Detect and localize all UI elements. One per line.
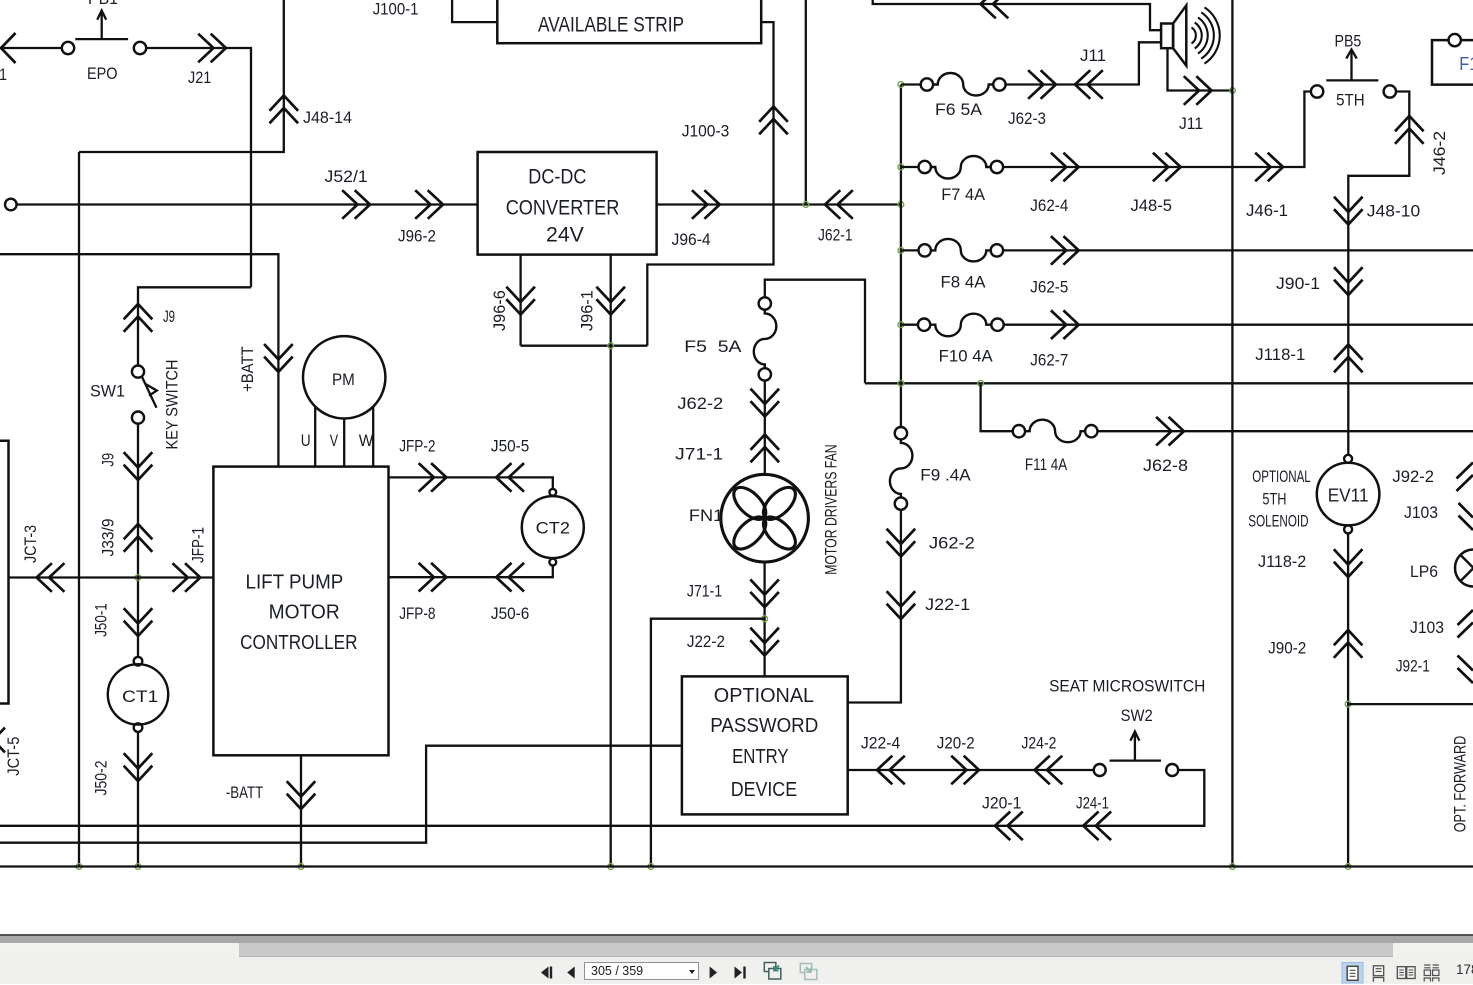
horn speaker bbox=[1161, 5, 1220, 65]
wire: left feed into EPO bbox=[0, 33, 62, 63]
svg-text:J103: J103 bbox=[1404, 504, 1438, 522]
svg-text:-BATT: -BATT bbox=[226, 784, 263, 802]
svg-text:J118-2: J118-2 bbox=[1258, 553, 1306, 571]
connector J50-6 bbox=[491, 563, 529, 623]
junction -BATT/bus bbox=[298, 864, 304, 870]
fuse F9 .4A bbox=[890, 427, 971, 510]
wire bus2 to password device bbox=[0, 746, 682, 843]
junction x1232/bus bbox=[1230, 864, 1236, 870]
svg-text:ENTRY: ENTRY bbox=[732, 746, 789, 768]
connector -BATT bbox=[226, 781, 315, 809]
junction bus-end/y383 bbox=[898, 380, 904, 386]
svg-text:JCT-3: JCT-3 bbox=[22, 525, 40, 563]
connector J52/1 bbox=[325, 168, 371, 219]
svg-text:J71-1: J71-1 bbox=[687, 583, 722, 601]
svg-text:J33/9: J33/9 bbox=[100, 519, 118, 557]
pushbutton PB1 (EPO) bbox=[62, 0, 146, 83]
connector J90-1 bbox=[1276, 267, 1363, 295]
connector J96-1 bbox=[579, 287, 625, 331]
junction F10 bbox=[898, 322, 904, 328]
svg-text:MOTOR DRIVERS FAN: MOTOR DRIVERS FAN bbox=[822, 444, 840, 574]
svg-text:F10 4A: F10 4A bbox=[939, 348, 993, 366]
svg-text:J9: J9 bbox=[100, 453, 118, 467]
svg-text:JFP-1: JFP-1 bbox=[190, 527, 208, 563]
wire +BATT branch bbox=[0, 254, 278, 466]
connector J62-2 seat bbox=[887, 529, 975, 557]
svg-text:JFP-2: JFP-2 bbox=[399, 438, 435, 456]
svg-text:EPO: EPO bbox=[87, 65, 118, 83]
wire 5TH to J48-10 drop bbox=[1348, 92, 1409, 455]
connector J11 horn bbox=[1075, 47, 1106, 99]
svg-text:J96-2: J96-2 bbox=[398, 228, 436, 246]
junction F6 bbox=[898, 82, 904, 88]
connector J9 lower bbox=[100, 452, 153, 480]
junction key-switch/JCT-3 bbox=[135, 575, 141, 581]
connector J100-3 bbox=[682, 107, 788, 141]
connector J96-2 bbox=[398, 190, 443, 245]
box JCT (cut at left edge) bbox=[0, 441, 9, 704]
svg-text:J90-1: J90-1 bbox=[1276, 275, 1320, 293]
svg-text:J22-1: J22-1 bbox=[925, 596, 970, 614]
svg-text:J62-1: J62-1 bbox=[818, 227, 853, 245]
svg-text:SOLENOID: SOLENOID bbox=[1248, 513, 1308, 531]
connector J22-1 bbox=[887, 591, 971, 619]
fuse F8 4A bbox=[919, 239, 1004, 292]
svg-text:SEAT MICROSWITCH: SEAT MICROSWITCH bbox=[1049, 678, 1205, 696]
svg-text:J103: J103 bbox=[1410, 619, 1444, 637]
lamp LP6 (cut) bbox=[1410, 550, 1473, 587]
svg-text:KEY SWITCH: KEY SWITCH bbox=[164, 360, 182, 450]
svg-text:J62-4: J62-4 bbox=[1030, 197, 1068, 215]
wire F5 to fan bbox=[764, 381, 766, 475]
wire horn feed from top bbox=[873, 0, 1161, 30]
connector J20-1 bbox=[982, 795, 1023, 841]
svg-text:J100-1: J100-1 bbox=[373, 1, 419, 19]
box F1 link (cut) bbox=[1432, 34, 1473, 85]
junction F7 bbox=[898, 164, 904, 170]
wire CT1 to bus bbox=[137, 732, 139, 867]
wire JCT-3 bbox=[9, 576, 214, 578]
wire key-switch branch bbox=[138, 287, 251, 365]
pin U bbox=[301, 407, 316, 466]
connector J96-6 bbox=[491, 287, 535, 331]
junction EV11/bus bbox=[1345, 864, 1351, 870]
wire x1232 vertical bbox=[1231, 0, 1233, 867]
current transducer CT2 bbox=[522, 489, 584, 566]
wire left vertical bus x79 bbox=[78, 152, 80, 867]
connector J48-5 bbox=[1131, 153, 1181, 215]
connector J92-2 (cut) bbox=[1392, 463, 1473, 492]
svg-text:F8 4A: F8 4A bbox=[941, 274, 986, 292]
svg-text:J50-1: J50-1 bbox=[93, 603, 111, 637]
connector JFP-2 bbox=[399, 438, 446, 492]
svg-text:J62-3: J62-3 bbox=[1008, 110, 1046, 128]
key switch SW1 bbox=[90, 360, 182, 450]
svg-text:FN1: FN1 bbox=[689, 507, 723, 525]
svg-text:J71-1: J71-1 bbox=[675, 445, 723, 463]
svg-text:JCT-5: JCT-5 bbox=[5, 737, 23, 776]
connector JCT-5 (cut) bbox=[0, 728, 23, 776]
wire available-strip to tie bar bbox=[647, 22, 773, 346]
svg-text:LIFT PUMP: LIFT PUMP bbox=[246, 572, 344, 594]
junction CT1/bus bbox=[135, 864, 141, 870]
svg-text:PB1: PB1 bbox=[88, 0, 118, 8]
svg-text:J46-2: J46-2 bbox=[1431, 131, 1449, 175]
wire 24V tie bar bbox=[521, 345, 648, 347]
wire opt-forward branch bbox=[1348, 703, 1473, 705]
wire ground bus bbox=[0, 865, 1473, 867]
svg-text:PASSWORD: PASSWORD bbox=[710, 715, 818, 737]
connector J62-5 bbox=[1030, 236, 1078, 296]
connector J33/9 bbox=[100, 519, 153, 557]
svg-text:SW1: SW1 bbox=[90, 383, 125, 401]
wire fuse bus vertical bbox=[900, 85, 902, 428]
connector J46-1 bbox=[1246, 153, 1288, 220]
connector J9 upper bbox=[124, 304, 175, 332]
wire F8 row bbox=[901, 249, 1473, 251]
junction x79/bus bbox=[76, 864, 82, 870]
wire return bus1 bbox=[0, 770, 1204, 826]
connector J50-1 bbox=[93, 603, 153, 637]
svg-text:J11: J11 bbox=[1080, 47, 1106, 65]
svg-text:CT2: CT2 bbox=[536, 520, 570, 538]
connector J71-1 fan bottom bbox=[687, 579, 779, 607]
svg-text:J24-2: J24-2 bbox=[1021, 735, 1056, 753]
svg-text:MOTOR: MOTOR bbox=[269, 601, 340, 623]
connector J21 bbox=[188, 34, 226, 87]
svg-text:J24-1: J24-1 bbox=[1076, 795, 1109, 813]
pushbutton PB5 (5TH) bbox=[1311, 33, 1396, 110]
svg-text:J50-2: J50-2 bbox=[93, 761, 111, 796]
svg-text:V: V bbox=[330, 432, 338, 450]
svg-text:24V: 24V bbox=[546, 223, 585, 247]
svg-text:J52/1: J52/1 bbox=[325, 168, 368, 186]
svg-text:DC-DC: DC-DC bbox=[528, 165, 586, 189]
connector J90-2 bbox=[1268, 630, 1362, 658]
connector J103 lower (cut) bbox=[1410, 610, 1473, 638]
fan FN1 bbox=[689, 444, 841, 574]
svg-text:W: W bbox=[359, 432, 374, 450]
wire JFP-8 loop bbox=[389, 566, 553, 578]
connector J50-5 bbox=[491, 438, 529, 492]
connector JFP-1 bbox=[173, 527, 208, 592]
connector J62-4 bbox=[1030, 153, 1078, 215]
solenoid EV11 bbox=[1317, 455, 1380, 534]
wire distribution y383 bbox=[865, 382, 1473, 384]
fuse F11 4A bbox=[1013, 420, 1098, 474]
connector J118-1 bbox=[1255, 345, 1362, 373]
svg-text:+BATT: +BATT bbox=[239, 346, 257, 392]
svg-text:J20-1: J20-1 bbox=[982, 795, 1021, 813]
svg-text:J118-1: J118-1 bbox=[1255, 346, 1305, 364]
connector J71-1 fan top bbox=[675, 435, 779, 464]
svg-text:J11: J11 bbox=[1179, 115, 1203, 133]
svg-text:PM: PM bbox=[332, 371, 355, 389]
wire -BATT bbox=[300, 755, 302, 866]
wire J96-6 output bbox=[519, 255, 521, 346]
svg-text:SW2: SW2 bbox=[1121, 707, 1153, 725]
block lift pump motor controller bbox=[213, 467, 388, 756]
svg-text:J90-2: J90-2 bbox=[1268, 640, 1306, 658]
svg-text:J50-5: J50-5 bbox=[491, 438, 529, 456]
svg-text:J92-2: J92-2 bbox=[1392, 468, 1434, 486]
svg-text:J50-6: J50-6 bbox=[491, 605, 529, 623]
wire J100-1 bbox=[373, 0, 498, 22]
connector J24-2 bbox=[1021, 735, 1062, 785]
connector J46-2 bbox=[1395, 116, 1449, 175]
svg-text:AVAILABLE STRIP: AVAILABLE STRIP bbox=[538, 13, 684, 37]
svg-text:F7 4A: F7 4A bbox=[941, 186, 985, 204]
wire JFP-2 loop bbox=[389, 477, 553, 489]
pin V bbox=[330, 419, 345, 466]
svg-text:F11 4A: F11 4A bbox=[1025, 456, 1067, 474]
connector J62-3 bbox=[1008, 70, 1056, 128]
terminal circle main wire bbox=[5, 199, 17, 211]
junction fuse bus feed bbox=[898, 202, 904, 208]
svg-text:OPTIONAL: OPTIONAL bbox=[1252, 468, 1310, 486]
svg-text:PB5: PB5 bbox=[1335, 33, 1362, 51]
connector JCT-3 bbox=[22, 525, 65, 592]
svg-text:5TH: 5TH bbox=[1336, 92, 1365, 110]
junction opt-forward branch bbox=[1345, 701, 1351, 707]
wire F5 branch bbox=[765, 280, 865, 384]
svg-text:F6 5A: F6 5A bbox=[935, 101, 982, 119]
connector J48-14 bbox=[270, 96, 353, 128]
connector J92-1 (cut) bbox=[1396, 656, 1473, 684]
block DC-DC converter 24V bbox=[478, 152, 657, 255]
connector J62-1 bbox=[818, 190, 853, 244]
svg-text:F1: F1 bbox=[1459, 54, 1473, 74]
connector J48-10 bbox=[1334, 197, 1420, 225]
svg-text:J48-5: J48-5 bbox=[1131, 197, 1173, 215]
connector J62-2 fan bbox=[677, 389, 779, 417]
wire F10 row bbox=[901, 324, 1473, 326]
fuse F10 4A bbox=[918, 314, 1004, 366]
fuse F7 4A bbox=[919, 156, 1004, 204]
wire horn return bbox=[1168, 48, 1233, 90]
pin W bbox=[359, 407, 374, 466]
connector J11 return bbox=[1179, 76, 1212, 133]
svg-text:EV11: EV11 bbox=[1328, 486, 1369, 506]
seat microswitch SW2 bbox=[1049, 678, 1205, 777]
svg-text:JFP-8: JFP-8 bbox=[399, 605, 435, 623]
connector J96-4 bbox=[672, 190, 720, 249]
wire F9 to password device bbox=[848, 510, 901, 703]
svg-text:J62-8: J62-8 bbox=[1143, 457, 1188, 475]
wire SW1 to JCT-3 wire bbox=[137, 424, 139, 657]
svg-text:J96-1: J96-1 bbox=[579, 290, 597, 331]
wire F11 row bbox=[981, 383, 1473, 431]
current transducer CT1 bbox=[108, 657, 168, 732]
junction F8 bbox=[898, 248, 904, 254]
junction J11/x1232 bbox=[1230, 88, 1236, 94]
svg-text:DEVICE: DEVICE bbox=[731, 779, 797, 801]
wire EPO to J21 corner bbox=[146, 48, 251, 287]
block optional password entry device bbox=[682, 676, 848, 814]
svg-text:J22-2: J22-2 bbox=[687, 633, 725, 651]
svg-text:J62-5: J62-5 bbox=[1030, 279, 1068, 297]
svg-text:LP6: LP6 bbox=[1410, 563, 1438, 581]
svg-text:U: U bbox=[301, 432, 311, 450]
junction 24V tie bbox=[608, 343, 614, 349]
connector J50-2 bbox=[93, 753, 153, 795]
label optional 5th solenoid bbox=[1248, 468, 1310, 531]
junction fan branch bbox=[762, 616, 768, 622]
svg-text:F5 5A: F5 5A bbox=[684, 338, 741, 356]
motor PM bbox=[303, 336, 385, 418]
svg-text:J21: J21 bbox=[188, 69, 211, 87]
connector J22-4 bbox=[861, 735, 905, 785]
svg-text:5TH: 5TH bbox=[1262, 491, 1286, 509]
svg-text:F9 .4A: F9 .4A bbox=[920, 467, 970, 485]
svg-text:J96-4: J96-4 bbox=[672, 231, 711, 249]
wire F6 row bbox=[901, 42, 1161, 84]
fuse F5 5A bbox=[684, 297, 776, 380]
connector +BATT bbox=[239, 344, 293, 392]
block AVAILABLE STRIP bbox=[497, 0, 761, 43]
svg-text:J96-6: J96-6 bbox=[491, 290, 509, 331]
wire J48-14 riser bbox=[79, 0, 284, 152]
svg-text:CONTROLLER: CONTROLLER bbox=[240, 632, 357, 654]
svg-text:OPTIONAL: OPTIONAL bbox=[714, 685, 814, 707]
wire J22-4 to SW2 bbox=[848, 769, 1094, 771]
svg-text:J20-2: J20-2 bbox=[937, 735, 975, 753]
junction F11 branch bbox=[978, 380, 984, 386]
svg-text:J92-1: J92-1 bbox=[1396, 658, 1430, 676]
connector J22-2 bbox=[687, 628, 779, 656]
wire DC-DC output to fuse bus bbox=[657, 203, 901, 205]
connector J24-1 bbox=[1076, 795, 1111, 841]
wire fan to password device bbox=[763, 562, 765, 676]
wire EV11 to bus bbox=[1347, 533, 1349, 866]
svg-text:J22-4: J22-4 bbox=[861, 735, 900, 753]
svg-text:CONVERTER: CONVERTER bbox=[506, 196, 620, 220]
svg-text:J46-1: J46-1 bbox=[1246, 202, 1288, 220]
svg-text:J48-14: J48-14 bbox=[303, 109, 352, 127]
connector JFP-8 bbox=[399, 563, 446, 623]
svg-text:J48-10: J48-10 bbox=[1367, 203, 1420, 221]
connector J103 upper (cut) bbox=[1404, 503, 1473, 530]
svg-text:1: 1 bbox=[0, 66, 7, 84]
svg-text:OPT. FORWARD: OPT. FORWARD bbox=[1452, 736, 1470, 833]
svg-text:J9: J9 bbox=[163, 308, 175, 326]
junction J96-1/bus bbox=[608, 864, 614, 870]
connector J62-8 bbox=[1143, 417, 1188, 475]
svg-text:CT1: CT1 bbox=[122, 688, 158, 706]
svg-text:J62-2: J62-2 bbox=[929, 535, 975, 553]
svg-text:J100-3: J100-3 bbox=[682, 123, 730, 141]
fuse F6 5A bbox=[921, 73, 1006, 119]
svg-text:J62-2: J62-2 bbox=[677, 395, 723, 413]
connector top (cut) bbox=[981, 0, 1009, 18]
wire F7 row bbox=[901, 92, 1311, 168]
wire main J52/1 feed bbox=[17, 203, 478, 205]
wire J96-1 output down to bus bbox=[610, 255, 612, 867]
connector J118-2 bbox=[1258, 549, 1362, 577]
wire x806 from top bbox=[805, 0, 807, 205]
connector J62-7 bbox=[1030, 310, 1078, 369]
svg-text:J62-7: J62-7 bbox=[1030, 352, 1068, 370]
junction fan-branch/bus bbox=[648, 864, 654, 870]
connector J20-2 bbox=[937, 735, 979, 785]
junction x806 bbox=[803, 202, 809, 208]
wire fan branch to bus bbox=[651, 619, 765, 867]
